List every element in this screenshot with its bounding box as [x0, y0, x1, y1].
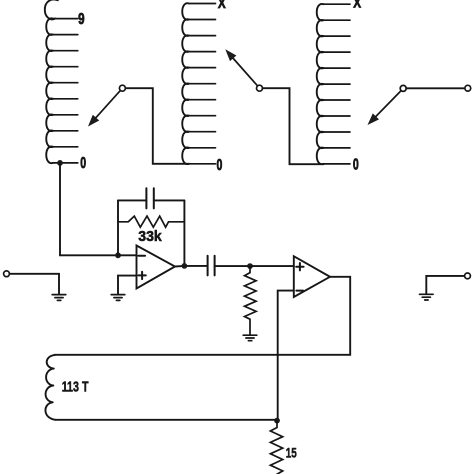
switch S2 pivot circle — [257, 85, 263, 91]
svg-text:9: 9 — [78, 11, 85, 28]
resistor R3 15 (to bottom edge) — [270, 421, 282, 474]
wire right terminal to ground — [426, 276, 464, 294]
inductor T1 (left tapped winding) — [45, 0, 78, 163]
wire junction to U2 plus input — [250, 265, 294, 267]
node: C2 / R2 / U2 junction dot — [247, 263, 253, 269]
svg-text:15: 15 — [286, 445, 297, 461]
feedback right branch wire — [183, 200, 185, 266]
wire junction to U1 minus input — [118, 254, 137, 256]
svg-text:0: 0 — [353, 155, 359, 173]
junction dot T1 bottom — [57, 160, 63, 166]
switch S2 wiper arrow — [225, 49, 257, 86]
svg-text:113 T: 113 T — [62, 379, 89, 395]
ground (below R2) — [243, 335, 257, 341]
wire S3 to terminal — [406, 87, 465, 89]
switch S3 wiper arrow — [368, 91, 402, 125]
inductor T2 (middle tapped winding) — [182, 3, 215, 164]
ground (right) — [420, 294, 434, 300]
resistor R2 (shunt to ground) — [245, 266, 257, 334]
terminal circle X output — [465, 85, 471, 91]
ground (U1 plus input) — [111, 295, 125, 301]
svg-text:33k: 33k — [138, 228, 162, 245]
node: feedback / R3 junction dot — [274, 418, 280, 424]
output terminal circle (right) — [465, 273, 471, 279]
wire U2 output — [55, 277, 351, 355]
inductor T3 (right tapped winding) — [317, 4, 350, 164]
switch S3 pivot circle — [400, 85, 406, 91]
wire L1 bottom to junction — [56, 419, 277, 421]
ground (left input) — [52, 295, 66, 301]
node: U1 output dot — [182, 263, 188, 269]
feedback left branch wire — [117, 200, 119, 255]
svg-text:0: 0 — [217, 156, 223, 174]
wire U2 minus feedback down — [278, 291, 294, 421]
wire input terminal to ground — [9, 274, 59, 294]
wire U1 plus input to ground — [118, 276, 137, 294]
input terminal circle (left) — [4, 271, 10, 277]
wire T1 bottom down to U1 inverting input — [60, 163, 118, 255]
svg-text:X: X — [353, 0, 361, 11]
op-amp U1 — [137, 246, 176, 289]
svg-text:X: X — [218, 0, 226, 11]
svg-text:0: 0 — [80, 154, 86, 172]
capacitor C2 (coupling) — [208, 256, 250, 276]
op-amp U2 — [294, 256, 330, 297]
wire S1 to T2 bottom — [125, 88, 189, 164]
inductor L1 113T — [45, 355, 55, 420]
capacitor C1 (feedback) — [118, 188, 184, 208]
wire S2 to T3 bottom — [263, 88, 324, 164]
switch S1 wiper arrow — [88, 90, 120, 126]
wire U1 output to C2 — [175, 265, 208, 268]
switch S1 pivot circle — [119, 85, 125, 91]
node: U1 inverting input junction dot — [115, 252, 121, 258]
resistor R1 33k (feedback) — [118, 216, 184, 227]
